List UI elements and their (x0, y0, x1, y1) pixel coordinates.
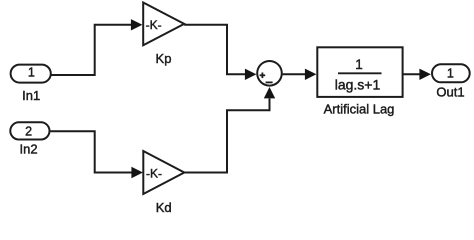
svg-text:-K-: -K- (146, 18, 162, 32)
svg-text:Kd: Kd (156, 200, 172, 215)
svg-text:lag.s+1: lag.s+1 (335, 77, 381, 93)
svg-text:In1: In1 (22, 88, 40, 103)
wire sum to transfer fn (283, 69, 317, 80)
svg-text:1: 1 (28, 66, 35, 80)
svg-text:Artificial Lag: Artificial Lag (324, 102, 395, 117)
wire In2 to Kd (51, 131, 143, 178)
wire Kp to sum (184, 25, 256, 80)
inport In1 (11, 65, 51, 103)
inport In2 (10, 122, 49, 156)
gain Kd (143, 151, 184, 215)
wire Kd to sum (184, 87, 275, 173)
svg-text:Out1: Out1 (436, 84, 464, 99)
sum block (257, 61, 282, 86)
wire In1 to Kp (52, 19, 143, 75)
svg-text:-K-: -K- (146, 167, 162, 181)
svg-text:In2: In2 (20, 142, 38, 157)
gain Kp (143, 3, 184, 67)
wire transfer fn to Out1 (404, 69, 431, 80)
transfer fn Artificial Lag (317, 47, 402, 116)
svg-text:1: 1 (355, 57, 363, 72)
outport Out1 (432, 64, 470, 99)
svg-text:Kp: Kp (156, 51, 172, 66)
svg-text:2: 2 (25, 124, 32, 138)
svg-text:1: 1 (447, 67, 454, 81)
